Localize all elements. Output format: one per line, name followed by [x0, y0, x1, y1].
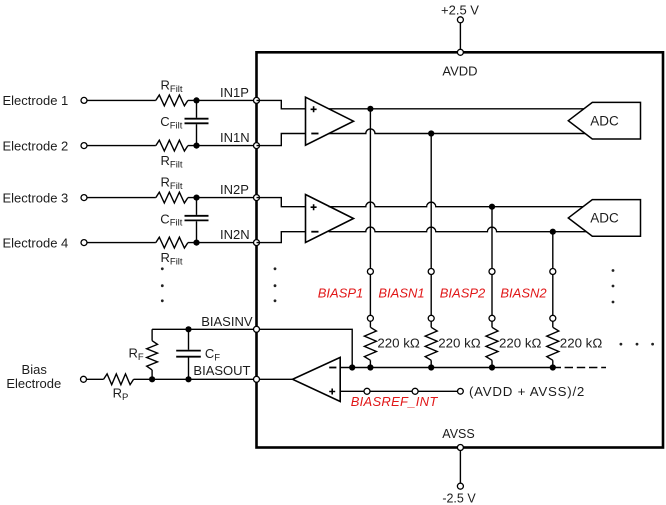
svg-text:220 kΩ: 220 kΩ: [560, 335, 603, 350]
junction BIASN2 on rail: [550, 364, 556, 370]
junction node IN2P: [193, 195, 199, 201]
junction CF top on BIASINV: [185, 326, 191, 332]
svg-text:Filt: Filt: [170, 181, 183, 192]
continuation dots (inner-left column): [274, 267, 277, 270]
junction BIASP1 on rail: [367, 364, 373, 370]
svg-text:BIASN2: BIASN2: [500, 286, 547, 301]
svg-text:AVDD: AVDD: [442, 64, 477, 79]
pin BIASOUT: [254, 376, 260, 382]
svg-text:IN1N: IN1N: [220, 130, 250, 145]
net BIASP1 vertical wire: [369, 109, 371, 269]
junction node IN1N: [193, 143, 199, 149]
resistor RFilt (row 1): [156, 95, 188, 106]
svg-text:Electrode 2: Electrode 2: [3, 138, 69, 153]
svg-text:ADC: ADC: [590, 113, 619, 128]
svg-text:R: R: [161, 175, 170, 190]
svg-text:+2.5 V: +2.5 V: [441, 3, 479, 18]
op-amp U2: [306, 195, 354, 243]
wire U1 negative output to ADC1 (hop over BIASP1): [329, 129, 589, 134]
pin IN1P: [254, 97, 260, 103]
svg-text:220 kΩ: 220 kΩ: [438, 335, 481, 350]
wire Electrode 4 to RFilt: [87, 242, 156, 244]
junction RF bottom: [149, 376, 155, 382]
wire rail to U3 inverting input: [340, 367, 561, 369]
svg-text:R: R: [113, 385, 122, 400]
svg-text:C: C: [160, 114, 169, 129]
terminal (AVDD + AVSS)/2: [458, 388, 464, 394]
op-amp U1: [306, 97, 354, 145]
svg-text:AVSS: AVSS: [442, 427, 474, 441]
net BIASN2 vertical wire: [552, 232, 554, 269]
junction BIASP2 on rail: [489, 364, 495, 370]
junction BIASP2 tap: [489, 204, 495, 210]
wire Electrode 1 to RFilt: [87, 99, 156, 101]
pin BIASINV: [254, 326, 260, 332]
wire IN1N to op-amp U1 - input: [257, 134, 306, 146]
continuation dots (left electrode column): [161, 267, 164, 270]
svg-text:C: C: [205, 346, 214, 361]
wire IN1N to pin: [188, 145, 257, 147]
junction BIASN1 tap: [428, 130, 434, 136]
wire U1 positive output to ADC1: [329, 108, 589, 110]
svg-text:-2.5 V: -2.5 V: [442, 491, 476, 505]
net BIASREF_INT to U3 + input: [340, 390, 457, 392]
svg-text:R: R: [161, 78, 170, 93]
svg-text:BIASINV: BIASINV: [201, 314, 253, 329]
junction BIASP1 tap: [367, 106, 373, 112]
net BIASP2 vertical wire: [491, 207, 493, 269]
svg-text:IN1P: IN1P: [220, 85, 249, 100]
junction BIASN2 tap: [550, 229, 556, 235]
svg-text:Electrode 4: Electrode 4: [3, 235, 69, 250]
wire Bias Electrode to RP: [87, 378, 104, 380]
pin IN2P: [254, 195, 260, 201]
wire IN2N to pin: [188, 242, 257, 244]
resistor RFilt (row 3): [156, 192, 188, 203]
svg-text:IN2P: IN2P: [220, 182, 249, 197]
junction node IN2N: [193, 240, 199, 246]
svg-text:F: F: [138, 352, 144, 363]
svg-text:IN2N: IN2N: [220, 227, 250, 242]
pin AVDD: [457, 49, 463, 55]
svg-text:(AVDD + AVSS)/2: (AVDD + AVSS)/2: [469, 384, 585, 399]
svg-text:Bias: Bias: [22, 362, 48, 377]
resistor RF: [151, 329, 153, 340]
pin IN2N: [254, 240, 260, 246]
net BIASN1 vertical wire: [430, 134, 432, 269]
svg-text:Filt: Filt: [170, 159, 183, 170]
svg-text:220 kΩ: 220 kΩ: [377, 335, 420, 350]
wire U2 positive output to ADC2 (hops over BIASP1, BIASN1): [329, 202, 589, 207]
svg-text:F: F: [214, 352, 220, 363]
svg-text:220 kΩ: 220 kΩ: [499, 335, 542, 350]
dashed rail continuation: [565, 367, 606, 369]
capacitor CF: [188, 329, 190, 350]
power terminal -2.5 V: [459, 448, 461, 484]
svg-text:BIASN1: BIASN1: [378, 286, 424, 301]
wire IN1P to op-amp U1 + input: [257, 100, 306, 108]
ADC U4 block: [568, 102, 640, 139]
svg-text:R: R: [161, 250, 170, 265]
junction BIASN1 on rail: [428, 364, 434, 370]
svg-text:Electrode: Electrode: [6, 376, 61, 391]
ADC U5 block: [568, 200, 640, 237]
wire U2 negative output to ADC2 (hops over BIASP1, BIASN1, BIASP2): [329, 227, 589, 232]
svg-text:Electrode 3: Electrode 3: [3, 190, 69, 205]
wire IN1P to pin: [188, 99, 257, 101]
wire IN2P to pin: [188, 197, 257, 199]
svg-text:Electrode 1: Electrode 1: [3, 93, 69, 108]
wire IN2N to op-amp U2 - input: [257, 232, 306, 243]
junction CF bottom: [185, 376, 191, 382]
svg-text:R: R: [129, 346, 138, 361]
resistor 220 kOhm (BIASP2): [486, 327, 498, 360]
wire IN2P to op-amp U2 + input: [257, 198, 306, 207]
svg-text:Filt: Filt: [170, 256, 183, 267]
resistor 220 kOhm (BIASN1): [425, 327, 437, 360]
resistor RFilt (row 4): [156, 237, 188, 248]
junction BIASINV feedback on rail: [349, 364, 355, 370]
IC boundary box: [257, 52, 664, 447]
resistor 220 kOhm (BIASN2): [547, 327, 559, 360]
pin IN1N: [254, 143, 260, 149]
resistor RFilt (row 2): [156, 140, 188, 151]
capacitor CFilt (channel 1): [196, 100, 198, 117]
junction node IN1P: [193, 97, 199, 103]
wire Electrode 2 to RFilt: [87, 145, 156, 147]
svg-text:Filt: Filt: [170, 121, 183, 132]
net BIASINV: [152, 329, 352, 367]
svg-text:BIASREF_INT: BIASREF_INT: [351, 394, 439, 409]
svg-text:BIASP2: BIASP2: [440, 286, 486, 301]
capacitor CFilt (channel 2): [196, 198, 198, 215]
svg-text:ADC: ADC: [590, 211, 619, 226]
resistor 220 kOhm (BIASP1): [364, 327, 376, 360]
op-amp U3 (bias amplifier): [293, 357, 341, 401]
svg-text:P: P: [122, 392, 128, 403]
svg-text:Filt: Filt: [170, 218, 183, 229]
svg-text:C: C: [160, 211, 169, 226]
svg-text:BIASP1: BIASP1: [318, 286, 364, 301]
net BIASOUT: [134, 378, 293, 380]
svg-text:R: R: [161, 153, 170, 168]
pin AVSS: [457, 445, 463, 451]
resistor RP: [104, 374, 134, 385]
continuation dots (after 220k resistors): [620, 343, 623, 346]
svg-text:BIASOUT: BIASOUT: [193, 363, 250, 378]
svg-text:Filt: Filt: [170, 84, 183, 95]
wire Electrode 3 to RFilt: [87, 197, 156, 199]
continuation dots (right column): [612, 269, 615, 272]
